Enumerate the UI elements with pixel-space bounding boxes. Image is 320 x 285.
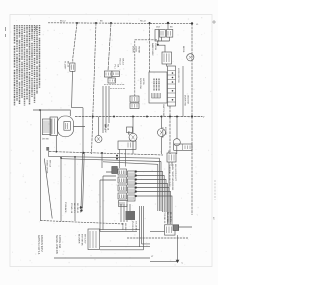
wire right bus vertical [191,23,193,215]
svg-text:WH BU: WH BU [124,223,126,231]
component clock box [118,141,136,149]
svg-text:BU-14 GY: BU-14 GY [169,212,171,223]
svg-text:LOCK MOTOR: LOCK MOTOR [177,68,179,83]
component motor circle C3 [173,139,180,146]
label texts [31,20,217,265]
svg-text:BK WH: BK WH [79,206,81,214]
wire top bus L1 [48,22,192,25]
wire bus y154 [49,152,163,156]
svg-text:TOD BK-16: TOD BK-16 [163,212,165,224]
svg-text:LOCK: LOCK [135,46,137,52]
svg-text:HI-LIMIT: HI-LIMIT [64,61,66,70]
component relay box TR right of C3 [174,144,192,150]
svg-text:CONV FAN: CONV FAN [161,127,164,139]
svg-text:P5 OR-16: P5 OR-16 [131,221,133,232]
node P2 dot [80,206,82,208]
svg-text:RD-12: RD-12 [119,59,121,66]
wire bus y156 [48,156,159,158]
wire thermal fuse drop [169,151,172,214]
svg-text:DOOR: DOOR [132,46,134,53]
svg-text:BK-14: BK-14 [122,59,124,66]
svg-text:L1 BK: L1 BK [31,26,33,32]
wire branch x71 [72,71,83,153]
svg-text:3 WIRE 40A: 3 WIRE 40A [58,235,61,249]
label bundle text [104,124,109,131]
component bottom-right cluster [165,225,176,235]
svg-text:WH-14: WH-14 [49,160,51,168]
wire vertical V112 [108,23,111,71]
svg-text:BK-12 GY: BK-12 GY [73,203,75,213]
svg-text:P2 WH-14: P2 WH-14 [70,203,72,214]
svg-text:MOTOR: MOTOR [164,127,166,136]
component latch assembly box E2 [149,72,167,103]
component motor circle C2 [158,129,166,137]
wire bundle x113 [108,86,110,123]
svg-text:FAN: FAN [127,131,130,136]
notes text block (greeked tiny print) [15,25,40,106]
wire fanout bus turns [158,158,161,211]
wire strip right vertical [182,66,184,117]
svg-text:LATCH: LATCH [142,78,145,85]
svg-text:MOTOR BK: MOTOR BK [81,234,83,246]
component connector P4 dark [126,211,136,220]
svg-text:3000W: 3000W [154,43,156,51]
component narrow box N [155,30,159,42]
component motor circle C0 [95,136,102,143]
notes margin marks [5,27,7,37]
wire circle C2 stub [99,117,177,155]
wire vertical x75 [74,157,76,221]
component motor circle C1 [129,133,137,141]
component door latch motor assembly [42,119,51,135]
svg-text:RD-12 WH: RD-12 WH [166,212,168,223]
svg-text:AMPS 5.4 KW 1.3: AMPS 5.4 KW 1.3 [37,235,40,255]
svg-text:SWITCH BR: SWITCH BR [162,104,164,117]
component box G2 stack [130,96,139,102]
wire vertical x102 [101,154,103,168]
wire fanout right of cluster [137,172,173,225]
wire bus y159 [61,159,161,162]
svg-text:SERIAL W10 305: SERIAL W10 305 [55,235,58,254]
component hi-limit on x71 [70,63,75,71]
wire bottom bus y259 [54,257,150,259]
wire vertical x170 mid [169,106,171,154]
svg-text:FAN SW: FAN SW [104,124,107,133]
component bottom-left box BL [88,229,100,250]
svg-text:P1 BLACK: P1 BLACK [64,202,67,213]
svg-text:RD OR 40: RD OR 40 [76,203,78,214]
wire circle C1 stub [132,117,134,155]
svg-text:SW BK: SW BK [138,46,140,54]
node dots bus154 [82,152,84,154]
svg-text:BK-12: BK-12 [60,21,66,23]
wire vertical V96 [92,23,97,154]
component relay box A1 [160,30,166,38]
wire oval feed [33,110,70,116]
wire bundle x107 [102,86,104,133]
svg-text:DLB: DLB [156,27,161,29]
wire vertical x42 bottom-left [40,110,42,221]
wire relay feed corner [135,40,157,96]
svg-text:240V: 240V [34,26,36,32]
component box row x105 [104,71,111,77]
wire verticals bottom-center [121,204,144,250]
svg-text:BAKE ELEM: BAKE ELEM [151,43,154,56]
svg-text:GY-14 BK: GY-14 BK [135,221,137,231]
component bus-start blob [46,147,49,151]
svg-text:BROIL: BROIL [182,46,184,53]
wire dashed y238 [127,237,188,239]
svg-text:BK RD: BK RD [121,223,123,230]
node strip pin dots [172,72,174,74]
svg-text:BLOWER: BLOWER [78,234,80,244]
node arrow C [176,260,180,263]
component connector strip [168,66,176,106]
wire left fan of cluster [100,172,116,231]
svg-text:WH-16 RD-18 P7: WH-16 RD-18 P7 [174,164,176,182]
wire left vertical V77 [73,23,77,63]
wire bundle x110 [105,86,107,128]
page scan border [10,15,212,267]
svg-text:THERMAL FUSE 253C: THERMAL FUSE 253C [168,164,171,187]
component fan box above C1 [127,127,133,133]
wire box BL leads [100,244,150,250]
wire oval down [56,127,85,152]
node dots top bus [76,22,78,24]
wire vertical x61 [60,157,62,221]
wire top relay drops [157,37,170,66]
wire bottom leads [100,227,192,232]
node dot oval feed [39,109,41,111]
component circle top-right [187,54,194,61]
component relay box B [162,52,172,64]
svg-text:DOOR SW: DOOR SW [139,78,141,90]
svg-text:WH 120V: WH 120V [84,234,86,244]
component control cluster blocks [118,169,127,175]
svg-text:UNLOCK: UNLOCK [187,95,189,105]
svg-text:120/240V 60HZ: 120/240V 60HZ [40,235,43,252]
svg-text:RD-12: RD-12 [140,21,147,23]
component relay box A2 [167,30,173,38]
component P1 box [112,167,118,174]
wire vertical x51 [44,159,52,219]
svg-text:BK-12: BK-12 [67,61,69,68]
component thermal fuse box [167,153,176,162]
wire bus y161 [103,162,158,165]
node cluster dots [135,170,137,172]
wire bus y221 [41,221,125,225]
wire C drop [150,235,178,261]
wire vertical V168 top [167,23,169,29]
svg-text:OVEN TEMP SENSOR BK: OVEN TEMP SENSOR BK [171,164,173,191]
wire vertical V149 [149,23,151,72]
wire mid bus y116 [75,116,203,118]
svg-text:DR SW: DR SW [42,139,49,141]
svg-text:OVEN DOOR: OVEN DOOR [46,160,48,174]
node dots mid bus [92,116,94,118]
svg-text:DOOR SW: DOOR SW [184,95,186,107]
wire double vertical x83 [81,153,84,209]
